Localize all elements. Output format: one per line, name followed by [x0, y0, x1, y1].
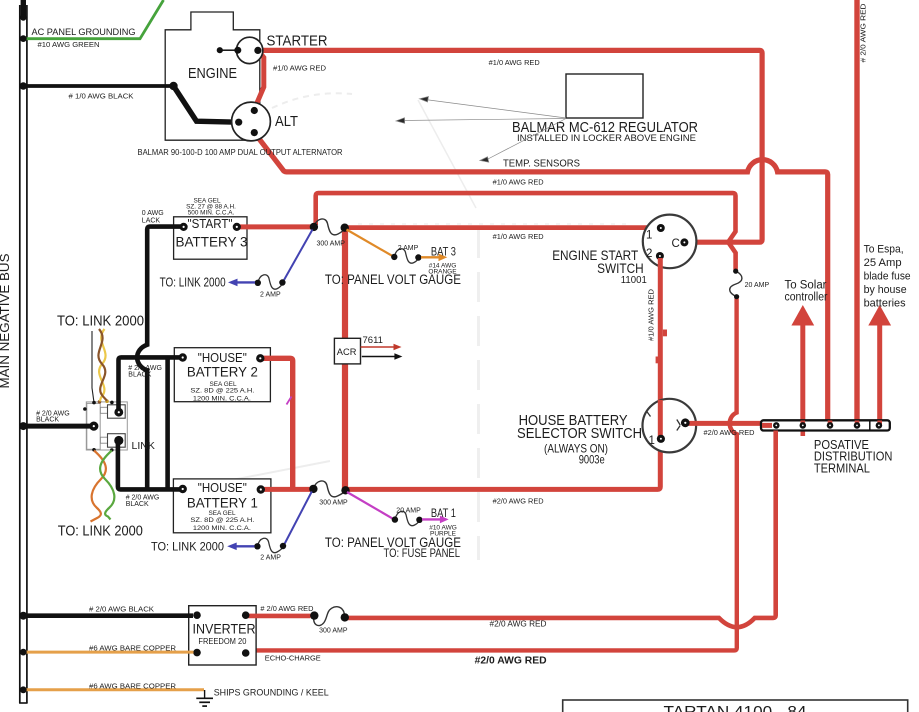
wire: #6 awg bare copper to inverter — [25, 643, 194, 652]
bus connection dots — [19, 14, 27, 693]
svg-text:ALT: ALT — [275, 114, 298, 130]
svg-text:To Solar: To Solar — [785, 279, 827, 291]
svg-text:9003e: 9003e — [579, 454, 605, 466]
temp sensors arrows — [396, 97, 566, 163]
svg-text:LINK: LINK — [132, 440, 155, 452]
svg-text:2 AMP: 2 AMP — [260, 292, 281, 299]
svg-text:SHIPS GROUNDING / KEEL: SHIPS GROUNDING / KEEL — [214, 688, 329, 699]
watermark faint lines — [232, 93, 632, 560]
wire: shunt bottom to battery1 negative — [118, 442, 181, 489]
svg-text:1: 1 — [649, 435, 655, 447]
ground: ships grounding / keel — [196, 690, 213, 706]
svg-text:#10 AWG GREEN: #10 AWG GREEN — [38, 42, 100, 49]
wire: orange bat 3 sense with 2 AMP fuse — [347, 230, 458, 276]
engine block — [165, 12, 260, 140]
svg-text:#2/0 AWG RED: #2/0 AWG RED — [475, 656, 547, 667]
battery 1 — [173, 479, 271, 533]
twisted pair bottom (orange/green) — [91, 451, 115, 522]
svg-text:#1/0 AWG RED: #1/0 AWG RED — [649, 289, 656, 341]
svg-text:C: C — [672, 238, 680, 250]
inverter — [189, 606, 256, 665]
svg-text:ECHO-CHARGE: ECHO-CHARGE — [265, 653, 321, 662]
wire: blue battery3 to LINK 2000 with 2 AMP fuse — [160, 230, 313, 299]
svg-text:#1/0 AWG RED: #1/0 AWG RED — [273, 65, 326, 72]
wire: red solar shaft from bar up — [800, 323, 805, 420]
svg-text:1200 MIN. C.C.A.: 1200 MIN. C.C.A. — [193, 525, 251, 532]
arrow: to Solar controller — [785, 279, 828, 325]
wire: purple bat 1 sense with 20 AMP fuse — [347, 492, 457, 538]
svg-text:TO: FUSE PANEL: TO: FUSE PANEL — [384, 548, 461, 560]
svg-text:7611: 7611 — [363, 335, 383, 346]
svg-text:#1/0 AWG RED: #1/0 AWG RED — [493, 234, 544, 241]
svg-text:#2/0 AWG RED: #2/0 AWG RED — [704, 430, 755, 437]
purple tick near battery2 wire — [287, 397, 292, 405]
svg-text:TARTAN 4100 - 84: TARTAN 4100 - 84 — [664, 704, 807, 712]
wire: battery2 positive red down to battery1 feed — [263, 358, 293, 487]
svg-text:"START": "START" — [188, 217, 233, 231]
battery 3 terminal dots — [180, 223, 188, 231]
regulator U: Balmar MC-612 — [512, 74, 698, 144]
main negative bus — [19, 0, 28, 703]
wire: red espa shaft from bar up — [877, 323, 882, 420]
wire: red # 2/0 AWG vertical from top right to bar — [857, 0, 868, 420]
ACR box — [334, 335, 402, 364]
svg-text:1: 1 — [646, 229, 652, 241]
svg-text:#1/0 AWG RED: #1/0 AWG RED — [489, 60, 540, 67]
svg-text:BLACK: BLACK — [36, 417, 59, 424]
svg-text:2: 2 — [646, 248, 652, 260]
fuse 300 AMP (battery 3) — [310, 219, 349, 248]
starter — [217, 32, 328, 63]
twisted pair top (yellow/brown) to LINK 2000 — [92, 329, 107, 401]
svg-text:BATTERY 1: BATTERY 1 — [187, 495, 258, 511]
fuse 20 AMP (engine start circuit) — [730, 269, 770, 300]
svg-text:# 1/0 AWG BLACK: # 1/0 AWG BLACK — [69, 92, 134, 101]
svg-text:#6 AWG BARE COPPER: #6 AWG BARE COPPER — [89, 643, 177, 652]
wire: battery3 positive red to junction — [239, 224, 311, 229]
svg-text:controller: controller — [785, 292, 828, 304]
wire: battery1 positive red to junction — [263, 487, 311, 492]
svg-text:25 Amp: 25 Amp — [864, 257, 902, 269]
svg-text:BLACK: BLACK — [128, 371, 151, 378]
svg-text:BAT 3: BAT 3 — [431, 244, 456, 258]
svg-text:#6 AWG BARE COPPER: #6 AWG BARE COPPER — [89, 681, 177, 690]
wire: alternator output red (y=172) with hop, to distribution bar x=827.7 — [255, 134, 828, 421]
svg-text:BATTERY 2: BATTERY 2 — [187, 364, 258, 380]
svg-text:TO: LINK 2000: TO: LINK 2000 — [160, 275, 226, 290]
battery 2 terminal dots — [179, 353, 187, 361]
svg-text:STARTER: STARTER — [267, 32, 328, 49]
battery 3 — [174, 198, 248, 260]
svg-text:(ALWAYS ON): (ALWAYS ON) — [544, 441, 608, 455]
svg-text:by house: by house — [864, 284, 907, 296]
wire: red switch terminal 2 down to selector terminal 1 and battery1 bus — [345, 258, 667, 489]
inverter terminal dots — [193, 611, 201, 619]
svg-text:#1/0 AWG RED: #1/0 AWG RED — [493, 179, 544, 186]
wire: red selector terminal1 passes (drawn above), terminal dot — [658, 400, 663, 440]
shunt LINK assembly — [86, 402, 155, 452]
svg-text:BATTERY 3: BATTERY 3 — [176, 234, 248, 250]
wire: black tie vertical x=167.6 — [165, 357, 170, 487]
svg-text:SZ. 8D @ 225 A.H.: SZ. 8D @ 225 A.H. — [190, 388, 254, 395]
wire: battery3 negative black (x=147 down with hop) — [137, 210, 181, 488]
svg-text:11001: 11001 — [621, 274, 647, 286]
wire: # 2/0 AWG black bus to shunt — [25, 411, 91, 426]
fuse 300 AMP (battery 1) — [309, 481, 350, 507]
wire: #6 awg bare copper to keel ground — [25, 681, 204, 690]
battery 1 terminal dots — [179, 485, 187, 493]
wire: AC panel grounding green — [23, 0, 164, 49]
svg-text:TEMP. SENSORS: TEMP. SENSORS — [503, 157, 580, 169]
svg-text:LACK: LACK — [142, 218, 161, 225]
svg-text:2 AMP: 2 AMP — [398, 245, 419, 252]
svg-text:To Espa,: To Espa, — [864, 244, 904, 256]
svg-text:"HOUSE": "HOUSE" — [198, 481, 247, 495]
fuse 300 AMP (inverter) — [310, 607, 349, 635]
svg-text:TO: LINK 2000: TO: LINK 2000 — [57, 314, 144, 330]
wire: red engine-start loop y=193 down x=735.5 through jogs to echo-charge — [249, 193, 737, 650]
svg-text:ACR: ACR — [337, 347, 357, 357]
arrow: to Espa — [864, 244, 911, 326]
svg-text:batteries: batteries — [864, 298, 906, 310]
wire: inverter positive red with loop to distribution bar — [248, 431, 776, 629]
wire: red y=227.5 battery3/300A to switch terminal 1 — [345, 225, 658, 230]
svg-text:ENGINE: ENGINE — [188, 66, 237, 82]
svg-text:AC PANEL GROUNDING: AC PANEL GROUNDING — [32, 27, 136, 38]
battery 2 — [174, 348, 270, 403]
svg-text:# 2/0 AWG RED: # 2/0 AWG RED — [861, 4, 868, 63]
shunt terminal dots — [83, 399, 123, 451]
svg-text:# 2/0 AWG BLACK: # 2/0 AWG BLACK — [89, 605, 154, 614]
wire: battery2 negative black to shunt top — [119, 357, 182, 410]
svg-text:300 AMP: 300 AMP — [317, 241, 346, 248]
svg-text:TERMINAL: TERMINAL — [814, 461, 870, 476]
svg-text:FREEDOM 20: FREEDOM 20 — [198, 637, 246, 646]
svg-text:INVERTER: INVERTER — [193, 622, 256, 637]
svg-text:20 AMP: 20 AMP — [396, 507, 421, 514]
svg-text:SELECTOR SWITCH: SELECTOR SWITCH — [517, 425, 642, 442]
svg-text:1200 MIN. C.C.A.: 1200 MIN. C.C.A. — [193, 396, 251, 403]
svg-text:500 MIN. C.C.A.: 500 MIN. C.C.A. — [188, 210, 235, 217]
svg-text:MAIN NEGATIVE BUS: MAIN NEGATIVE BUS — [0, 254, 12, 389]
svg-text:300 AMP: 300 AMP — [319, 500, 348, 507]
svg-text:SZ. 8D @ 225 A.H.: SZ. 8D @ 225 A.H. — [190, 517, 254, 524]
svg-text:300 AMP: 300 AMP — [319, 628, 348, 635]
svg-text:20 AMP: 20 AMP — [745, 282, 770, 289]
posative distribution terminal — [761, 420, 892, 475]
wire: selector C to distribution bar — [681, 418, 762, 437]
svg-text:BALMAR 90-100-D 100 AMP DUAL O: BALMAR 90-100-D 100 AMP DUAL OUTPUT ALTE… — [138, 148, 343, 157]
wire: blue battery1 to LINK 2000 with 2 AMP fuse — [151, 492, 312, 562]
svg-text:# 2/0 AWG RED: # 2/0 AWG RED — [260, 604, 314, 613]
svg-text:0 AWG: 0 AWG — [142, 210, 164, 217]
engine start switch — [552, 215, 696, 286]
wire: red vertical x=345 (panel volt gauge riser) — [342, 229, 348, 489]
svg-text:#2/0 AWG RED: #2/0 AWG RED — [490, 620, 547, 629]
svg-text:blade fuse: blade fuse — [864, 271, 911, 283]
title block — [563, 700, 908, 712]
svg-text:BLACK: BLACK — [126, 501, 149, 508]
svg-text:TO: PANEL VOLT GAUGE: TO: PANEL VOLT GAUGE — [325, 272, 461, 287]
svg-text:2 AMP: 2 AMP — [260, 555, 281, 562]
svg-text:BAT 1: BAT 1 — [431, 506, 456, 520]
wire: inverter dc negative black — [25, 605, 193, 616]
alternator ALT — [138, 102, 343, 157]
red wire stubs entering bar — [762, 423, 772, 428]
svg-text:TO: LINK 2000: TO: LINK 2000 — [58, 523, 143, 539]
wire: starter red #1/0 to right side and down to switch C (x=762 vertical) — [255, 50, 762, 242]
svg-text:#2/0 AWG RED: #2/0 AWG RED — [493, 498, 544, 505]
svg-text:TO: LINK 2000: TO: LINK 2000 — [151, 540, 224, 554]
wire: #1/0 AWG black bus to engine — [25, 82, 238, 122]
house battery selector switch — [517, 399, 696, 466]
svg-text:INSTALLED IN LOCKER ABOVE ENGI: INSTALLED IN LOCKER ABOVE ENGINE — [517, 133, 696, 144]
